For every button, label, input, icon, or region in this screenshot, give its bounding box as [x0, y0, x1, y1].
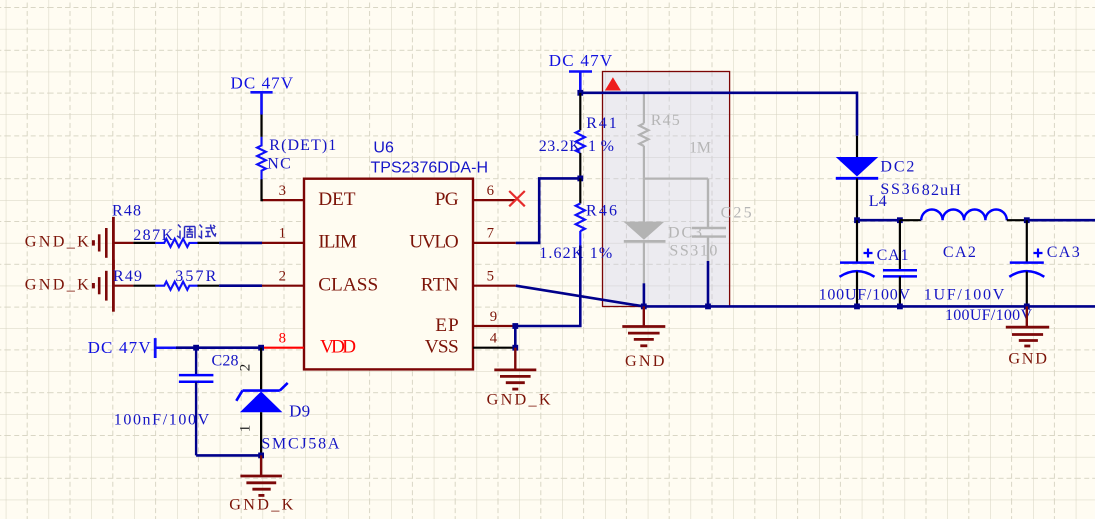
wire DC2 bottom pin [856, 178, 858, 220]
svg-text:GND_K: GND_K [25, 233, 89, 251]
svg-text:CA3: CA3 [1047, 244, 1080, 261]
power ground GND_K (row 2, bar style) [93, 260, 133, 312]
wire R(DET)1 to pin 3 [262, 179, 264, 200]
svg-text:9: 9 [490, 309, 497, 325]
svg-text:DC 47V: DC 47V [88, 338, 152, 357]
svg-text:GND_K: GND_K [487, 390, 551, 408]
svg-text:R41: R41 [586, 115, 617, 132]
svg-text:D9: D9 [289, 402, 310, 421]
blanket collapse triangle marker [605, 77, 621, 90]
svg-text:287K: 287K [133, 227, 173, 244]
power port DC 47V (top center) [569, 72, 592, 93]
svg-text:100UF/100V: 100UF/100V [819, 286, 911, 303]
junction at CA3 bottom / GND [1024, 304, 1030, 310]
diode D9 SMCJ58A (TVS, pointing up) [236, 383, 287, 412]
diode DC3 SS310 (masked) [623, 222, 665, 284]
svg-text:1: 1 [238, 425, 254, 433]
svg-text:DC 47V: DC 47V [231, 74, 294, 93]
pin 3 DET stub [261, 199, 304, 201]
svg-text:100UF/100V: 100UF/100V [945, 307, 1032, 324]
diode DC2 SS36 (pointing down) [836, 157, 878, 178]
junction at CA3 top [1024, 217, 1030, 223]
svg-text:DC2: DC2 [880, 159, 914, 176]
wire EP to VSS [514, 326, 517, 348]
junction R41/R46/UVLO node [577, 176, 583, 182]
svg-text:U6: U6 [373, 140, 394, 157]
svg-text:C28: C28 [212, 353, 239, 370]
wire R48 to pin 1 [219, 242, 262, 245]
junction at DC2 / CA1 node [854, 217, 860, 223]
svg-text:VSS: VSS [425, 337, 459, 358]
junction at DC47V / R41 / top bus [577, 90, 583, 96]
power ground GND (center) [622, 306, 665, 345]
svg-text:6: 6 [487, 183, 494, 199]
capacitor CA1 (polarized) [840, 220, 875, 306]
svg-text:5: 5 [487, 269, 494, 285]
svg-text:DC 47V: DC 47V [549, 51, 613, 70]
junction at CA2 bottom [897, 304, 903, 310]
wire D9 bottom pin [260, 412, 262, 455]
power ground GND_K (under VSS) [494, 348, 536, 389]
wire node row CA1 to CA2 [857, 219, 900, 222]
svg-text:R48: R48 [112, 203, 141, 220]
power port DC 47V (top left) [250, 92, 272, 114]
wire UVLO to node [516, 178, 581, 243]
junction at CA1 bottom [854, 304, 860, 310]
wire DC3 bottom to ground net [643, 283, 646, 306]
power ground GND (right) [1006, 306, 1049, 346]
svg-text:1M: 1M [689, 140, 711, 157]
capacitor C28 [179, 348, 214, 456]
svg-text:3: 3 [279, 183, 286, 199]
wire DC47V to R(DET)1 [260, 115, 262, 137]
pin 4 VSS stub (black) [473, 347, 516, 349]
wire R46 bottom to EP node [515, 245, 580, 326]
power port DC 47V (bottom left) [155, 338, 176, 358]
resistor R49 [133, 282, 219, 290]
junction at C25 bottom [705, 304, 711, 310]
wire R41 bottom pin [579, 153, 581, 179]
junction at VSS pin [512, 345, 518, 351]
svg-text:357R: 357R [175, 268, 216, 285]
svg-text:82uH: 82uH [922, 182, 961, 199]
junction at D9 bottom [258, 453, 264, 459]
svg-text:PG: PG [435, 189, 459, 210]
svg-text:R46: R46 [586, 203, 617, 220]
svg-text:2: 2 [238, 364, 254, 372]
resistor R48 [133, 239, 219, 247]
junction at GND node [641, 304, 647, 310]
value text 23.2K 1% [539, 138, 614, 155]
svg-text:CLASS: CLASS [318, 275, 378, 296]
svg-text:R49: R49 [113, 268, 142, 285]
compile-mask blanket region [603, 72, 730, 307]
svg-text:GND: GND [625, 352, 665, 370]
wire L4 to CA3 [1007, 219, 1027, 221]
pin 5 RTN stub [473, 285, 516, 287]
svg-text:R45: R45 [651, 112, 680, 129]
junction at CA2 top [897, 217, 903, 223]
resistor R41 [576, 130, 585, 153]
svg-text:CA1: CA1 [877, 247, 909, 264]
wire output to right edge [1027, 219, 1095, 222]
svg-text:7: 7 [487, 226, 494, 242]
wire R49 to pin 2 [219, 284, 262, 287]
pin 8 VDD stub (red) [261, 347, 304, 349]
svg-text:GND: GND [1008, 350, 1047, 368]
svg-text:R(DET)1: R(DET)1 [269, 137, 336, 154]
capacitor CA3 (polarized) [1009, 220, 1044, 306]
svg-text:TPS2376DDA-H: TPS2376DDA-H [371, 159, 489, 176]
capacitor C25 (masked) [692, 179, 726, 261]
wire (masked) R45 to C25 [644, 178, 708, 180]
pin 6 PG stub [473, 199, 516, 201]
parameter text 调试 (CJK drawn as paths) [177, 225, 216, 239]
wire DC2 top pin [856, 136, 858, 157]
svg-text:1%: 1% [588, 138, 614, 155]
svg-text:1: 1 [279, 226, 286, 242]
junction on VDD net at C28 [193, 345, 199, 351]
op-amp/IC U6 TPS2376DDA-H body [304, 179, 473, 370]
svg-text:UVLO: UVLO [409, 232, 459, 253]
wire R41 top pin [579, 93, 581, 131]
power ground GND_K (row 1, bar style) [93, 217, 133, 269]
svg-text:1UF/100V: 1UF/100V [924, 286, 1005, 303]
resistor R46 [576, 204, 585, 246]
svg-text:1.62K 1%: 1.62K 1% [539, 245, 612, 262]
svg-text:C25: C25 [721, 204, 752, 221]
resistor R45 (masked) [639, 93, 648, 179]
junction on VDD net at D9 [258, 345, 264, 351]
svg-text:EP: EP [435, 315, 459, 336]
pin 7 UVLO stub [473, 242, 516, 244]
wire VDD net [176, 346, 262, 349]
svg-text:4: 4 [490, 331, 498, 347]
wire ground bus (bottom) [644, 305, 1095, 308]
svg-text:CA2: CA2 [943, 244, 976, 261]
junction at EP pin [512, 323, 518, 329]
no-ERC cross on PG [509, 191, 525, 206]
wire RTN diagonal to ground node [516, 286, 644, 307]
svg-text:2: 2 [279, 269, 286, 285]
wire C25 bottom to ground net [707, 261, 710, 306]
wire D9 top pin [260, 348, 262, 391]
svg-text:VDD: VDD [320, 337, 356, 358]
inductor L4 82uH [921, 210, 1007, 221]
pin 1 ILIM stub [261, 242, 304, 244]
svg-text:DET: DET [318, 189, 356, 210]
svg-text:23.2K: 23.2K [539, 138, 581, 155]
pin 9 EP stub [473, 325, 516, 327]
capacitor CA2 [883, 220, 917, 306]
wire top bus to DC2 [580, 93, 857, 136]
svg-text:SS310: SS310 [669, 243, 717, 260]
wire CA2 to L4 [900, 219, 921, 221]
wire (masked) R45 to DC3 [643, 179, 645, 222]
svg-text:GND_K: GND_K [25, 275, 89, 293]
svg-text:RTN: RTN [421, 275, 459, 296]
wire C28 bottom to D9 bottom [196, 454, 261, 457]
svg-text:GND_K: GND_K [229, 495, 293, 513]
power ground GND_K (under D9) [240, 455, 282, 495]
svg-text:SMCJ58A: SMCJ58A [261, 436, 339, 453]
pin 2 CLASS stub [261, 285, 304, 287]
wire R46 top pin [579, 178, 581, 203]
svg-text:L4: L4 [869, 193, 887, 210]
svg-text:ILIM: ILIM [318, 232, 357, 253]
resistor R(DET)1 [257, 137, 266, 180]
svg-text:8: 8 [279, 331, 286, 347]
